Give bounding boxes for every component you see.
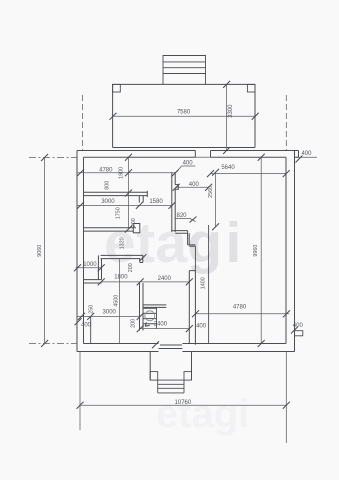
svg-text:400: 400 [301, 151, 312, 157]
dim column x119 [119, 259, 121, 344]
dim 3300 porch height [223, 81, 234, 154]
svg-text:1800: 1800 [114, 274, 128, 280]
svg-text:1750: 1750 [116, 207, 122, 219]
dim 400 bottom-right [291, 323, 303, 334]
dim 400 top-right [295, 151, 318, 163]
svg-text:400: 400 [81, 322, 92, 328]
dim 3000 bottom [75, 310, 144, 326]
door threshold top [195, 156, 210, 158]
svg-text:200: 200 [128, 263, 134, 272]
interior wall A horizontal [84, 191, 148, 203]
dim 10760 bottom [77, 352, 290, 444]
dim 400 mid [173, 182, 212, 191]
interior stair top band [143, 305, 166, 308]
bottom porch post right [184, 372, 192, 381]
bottom porch steps [158, 380, 184, 393]
interior wall B vertical with notch [172, 172, 179, 232]
svg-text:3300: 3300 [228, 104, 234, 118]
svg-text:200: 200 [131, 218, 137, 227]
svg-text:2400: 2400 [154, 322, 168, 328]
top entry stairs [163, 56, 206, 85]
svg-text:3000: 3000 [101, 199, 115, 205]
Z-wall lower band [84, 280, 102, 283]
door threshold bottom [159, 345, 183, 349]
svg-text:5640: 5640 [221, 165, 235, 171]
interior stair treads [144, 308, 157, 324]
dim 400 top gap label [177, 161, 196, 173]
dim 9060 vertical exterior left [29, 154, 77, 347]
dim 5640 [207, 165, 290, 177]
svg-text:200: 200 [130, 319, 136, 328]
closet wall double center [189, 271, 195, 345]
svg-text:3000: 3000 [103, 310, 117, 316]
step wall center [172, 231, 196, 247]
stair hall wall vertical [140, 283, 144, 331]
Z-wall upper band [101, 255, 143, 262]
svg-text:1000: 1000 [83, 262, 97, 268]
interior stair arrow arc [145, 311, 155, 321]
svg-text:2560: 2560 [208, 186, 214, 198]
svg-text:etagi: etagi [156, 392, 249, 436]
left exterior wall [77, 151, 84, 352]
dim 9960 vertical interior [253, 154, 265, 347]
bottom exterior wall [77, 344, 295, 352]
svg-text:1580: 1580 [149, 199, 163, 205]
svg-text:800: 800 [104, 181, 110, 190]
bottom porch post left [150, 372, 158, 381]
porch post right [247, 84, 255, 92]
dim 4780 bottom [192, 305, 290, 318]
svg-text:1900: 1900 [118, 167, 124, 179]
svg-text:7580: 7580 [177, 109, 191, 115]
thin wall line center-left going down [194, 246, 196, 270]
dim column x128 with ticks [125, 154, 132, 233]
thin wall line center going down [208, 225, 210, 344]
tick at bottom door left [152, 341, 159, 348]
svg-text:9060: 9060 [37, 245, 43, 257]
svg-text:4500: 4500 [113, 295, 119, 307]
pilaster bottom-right [295, 331, 303, 336]
dim 7580 porch [110, 109, 259, 120]
dim 1800 / 2400 line [98, 274, 193, 285]
svg-text:2400: 2400 [158, 276, 172, 282]
partition stub x90 [90, 316, 92, 343]
svg-text:4780: 4780 [99, 167, 113, 173]
svg-text:400: 400 [196, 324, 207, 330]
tick at Z-band right end [139, 254, 146, 261]
svg-text:9960: 9960 [253, 245, 259, 257]
svg-text:1320: 1320 [120, 237, 126, 249]
top exterior wall left segment [77, 151, 195, 158]
top exterior wall right segment [211, 151, 299, 158]
svg-text:1400: 1400 [201, 277, 207, 289]
Z-wall vertical [98, 255, 101, 279]
dim 2560 vertical [208, 169, 219, 231]
right exterior wall [286, 151, 295, 352]
dim 1000 [74, 262, 105, 271]
dim 820 label [175, 213, 197, 222]
bottom porch sides [150, 352, 191, 381]
svg-text:10760: 10760 [175, 400, 192, 406]
porch post left [113, 84, 121, 92]
svg-text:250: 250 [88, 305, 94, 314]
porch outline [113, 84, 255, 147]
svg-text:400: 400 [293, 323, 304, 329]
svg-text:4780: 4780 [233, 305, 247, 311]
extension line right of porch [83, 95, 287, 151]
dim 2400 bottom [137, 322, 193, 332]
dim 3000 and 1580 line [77, 199, 176, 209]
interior wall C horizontal [84, 224, 140, 233]
dim 4780 top [77, 167, 179, 176]
svg-text:400: 400 [189, 182, 200, 188]
